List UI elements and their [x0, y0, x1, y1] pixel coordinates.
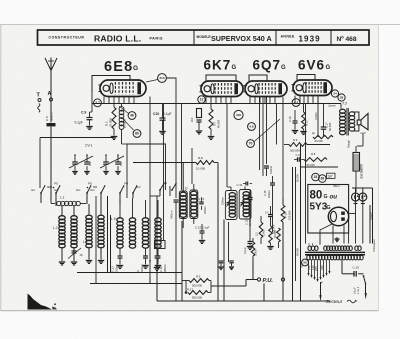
- wire 6V6 pin to 2uF resistor: [317, 96, 319, 138]
- svg-text:25.000: 25.000: [109, 118, 113, 127]
- scan top edge: [0, 24, 400, 26]
- vertical x225: [223, 220, 225, 302]
- svg-text:2μ: 2μ: [312, 131, 315, 135]
- trimmer 15 arrow: [68, 248, 81, 259]
- coil L4 winding: [98, 215, 104, 219]
- rectifier output wire: [349, 213, 356, 215]
- coil L1 winding: [57, 201, 62, 205]
- tag box 187: [327, 173, 336, 178]
- wire L1 right: [80, 203, 86, 205]
- title block frame: [38, 30, 370, 45]
- P.U. lead down: [263, 284, 265, 302]
- svg-text:0,1μF: 0,1μF: [163, 112, 172, 116]
- svg-text:100.000: 100.000: [288, 210, 292, 220]
- cathode cap: [197, 119, 202, 121]
- svg-text:250cm: 250cm: [267, 190, 271, 198]
- dial lamp box D: [155, 241, 166, 249]
- detector cap 0.1uF: [248, 241, 253, 243]
- ground C9: [86, 126, 93, 128]
- osc padder riser: [175, 202, 177, 301]
- AVC cap 1: [219, 260, 224, 262]
- circled 38: [319, 175, 327, 183]
- resistor R8b 50000: [304, 158, 327, 162]
- ground cathode: [196, 130, 203, 132]
- svg-text:56: 56: [303, 261, 307, 265]
- output transformer secondary winding: [349, 112, 355, 116]
- svg-text:A: A: [48, 91, 52, 97]
- svg-text:480cm: 480cm: [163, 264, 167, 272]
- cap C19: [342, 273, 354, 275]
- tuning cap pair 1: [74, 155, 76, 162]
- ground resistor 30000: [270, 243, 272, 246]
- long vertical x295: [295, 167, 297, 281]
- ground C10: [159, 131, 166, 133]
- wire 6E8 grid-cap down: [91, 92, 93, 96]
- svg-text:6E8: 6E8: [104, 59, 133, 75]
- svg-text:240cm: 240cm: [170, 210, 174, 219]
- wire C19 riser: [341, 260, 343, 273]
- rectifier designation box: [308, 185, 349, 234]
- coil L5 winding: [117, 218, 123, 222]
- rectifier cathode: [331, 211, 337, 221]
- cap C16: [245, 182, 247, 186]
- switch bank4 contact b: [171, 189, 173, 191]
- svg-text:318: 318: [236, 113, 241, 117]
- svg-text:2x8μF: 2x8μF: [370, 212, 374, 220]
- circled pin 318: [234, 110, 243, 119]
- 6Q7 pin wire 3: [266, 97, 268, 165]
- coil L2 winding: [59, 216, 65, 220]
- electrolytic lead 1: [355, 202, 357, 244]
- IF2 primary winding: [229, 193, 235, 197]
- P.U. terminal right: [281, 278, 284, 281]
- wire choke to osc box: [122, 143, 128, 145]
- antenna: [45, 58, 51, 71]
- 6Q7 pin wire 2: [262, 97, 264, 177]
- ground L4: [100, 248, 102, 260]
- leader lines circled 80: [122, 118, 134, 130]
- svg-text:500.000: 500.000: [290, 149, 300, 153]
- svg-text:500.000: 500.000: [192, 283, 203, 287]
- 6Q7 pin wire 1: [259, 97, 261, 171]
- ink blot bottom-left: [28, 294, 53, 310]
- IF1 primary bracket: [179, 191, 187, 219]
- svg-text:1 ou 2: 1 ou 2: [356, 286, 360, 294]
- svg-text:MODELE: MODELE: [197, 35, 212, 39]
- switch riser to bottom bus: [95, 196, 97, 284]
- svg-text:R.8: R.8: [198, 156, 203, 160]
- svg-text:D: D: [158, 244, 161, 248]
- circled pin 80: [133, 130, 141, 138]
- ground R7: [208, 136, 215, 138]
- svg-text:C.15: C.15: [244, 219, 248, 225]
- resistor R8: [196, 161, 214, 165]
- cap 510cm: [264, 165, 269, 167]
- svg-text:33: 33: [314, 175, 318, 179]
- svg-text:C.19: C.19: [353, 266, 360, 270]
- svg-text:50.000: 50.000: [328, 122, 332, 131]
- grid choke winding: [119, 107, 124, 112]
- coil bank bottom bus y283: [90, 283, 182, 285]
- scan right edge: [378, 25, 380, 312]
- circled pin 12: [198, 96, 205, 103]
- wire HT bus to T3: [340, 104, 342, 109]
- svg-text:187: 187: [327, 174, 333, 178]
- rectifier filament lead 1: [332, 226, 334, 244]
- IF1 secondary bracket: [190, 190, 198, 219]
- svg-text:G: G: [133, 65, 138, 72]
- cathode cap C18: [294, 110, 296, 121]
- earth mark: [38, 104, 40, 113]
- wire R9 to x330: [307, 144, 330, 146]
- riser x300 bus: [300, 145, 302, 302]
- circled pin 70: [247, 140, 255, 148]
- svg-text:213: 213: [159, 76, 164, 80]
- tube 6Q7 envelope: [245, 81, 287, 97]
- svg-text:SUPERVOX 540 A: SUPERVOX 540 A: [211, 34, 272, 43]
- svg-text:L.2: L.2: [53, 226, 58, 230]
- IF2 secondary bracket: [239, 190, 251, 220]
- 6Q7 pin wire 4: [276, 104, 278, 145]
- field coil leads: [355, 146, 357, 153]
- svg-text:R.8: R.8: [311, 152, 316, 156]
- ground detector: [249, 244, 251, 246]
- circled 56: [302, 259, 309, 266]
- bus vertical x163: [163, 104, 165, 241]
- IF2 secondary winding: [243, 192, 249, 196]
- circled pin 24: [331, 90, 338, 97]
- oscillator loop box: [127, 144, 166, 198]
- leader wire to circled 213: [146, 80, 158, 83]
- svg-text:6Q7: 6Q7: [253, 58, 282, 73]
- B+ top wire: [352, 187, 373, 189]
- svg-text:15: 15: [80, 253, 84, 257]
- resistor 30000 vertical: [269, 226, 273, 243]
- svg-text:1939: 1939: [299, 34, 321, 43]
- tube 6E8 envelope: [100, 80, 146, 97]
- svg-text:0,1μF: 0,1μF: [243, 247, 247, 254]
- wire x150 to bottom bus: [149, 278, 151, 284]
- wire C9 to grid loop: [91, 96, 93, 112]
- svg-text:500cm: 500cm: [50, 112, 54, 121]
- svg-text:38: 38: [321, 177, 325, 181]
- svg-text:R.9: R.9: [293, 138, 298, 142]
- svg-text:GC: GC: [31, 188, 35, 192]
- switch bank3 wires: [119, 193, 121, 204]
- bus vertical x182b: [181, 221, 183, 301]
- grid-cap loop 6V6: [297, 75, 315, 81]
- circled 33: [312, 173, 320, 181]
- wire bus y167: [301, 166, 339, 168]
- resistor 50000: [313, 135, 333, 138]
- bottom bus y301: [157, 300, 330, 302]
- IF2 secondary trimmer: [240, 202, 244, 204]
- svg-text:24: 24: [333, 92, 337, 96]
- bus vertical x150: [149, 97, 151, 284]
- long vertical x292: [292, 167, 294, 301]
- box edge to transformer: [348, 233, 350, 244]
- leader lines circled 46: [119, 106, 129, 114]
- HT bus wire y104: [92, 103, 341, 105]
- svg-text:Jaune: Jaune: [328, 104, 336, 108]
- osc padder cap: [174, 199, 179, 201]
- rectifier cathode to HT: [320, 224, 332, 244]
- svg-text:12: 12: [200, 98, 204, 102]
- transformer input risers: [308, 244, 310, 245]
- wire IF2 primary top: [230, 187, 232, 191]
- svg-text:2,2: 2,2: [255, 232, 259, 236]
- svg-text:30.000: 30.000: [273, 230, 277, 238]
- wire circled 213 down: [166, 78, 176, 198]
- svg-text:5Y3: 5Y3: [310, 202, 328, 213]
- IF1 leads: [182, 163, 184, 192]
- svg-text:L.1: L.1: [60, 196, 65, 200]
- mains tap leads with arrows: [308, 260, 310, 273]
- circled pin 46: [128, 112, 136, 120]
- electrolytic lead 2: [362, 202, 364, 244]
- cap C16b: [272, 176, 274, 183]
- R5 R17 left leads: [182, 280, 189, 282]
- svg-text:RADIO L.L.: RADIO L.L.: [94, 33, 141, 43]
- switch bank4 wire: [150, 195, 160, 197]
- detector cap 250cm: [249, 190, 251, 198]
- IF2 primary bracket: [225, 191, 237, 220]
- vertical wire x272 down: [272, 192, 274, 232]
- svg-text:4.8: 4.8: [249, 125, 254, 129]
- bus vertical x181: [181, 104, 183, 191]
- electrolytic capacitor 2 foot: [361, 203, 365, 205]
- svg-text:20.000: 20.000: [123, 119, 127, 128]
- trimmer 15 cap: [72, 250, 77, 252]
- svg-text:C.16: C.16: [237, 183, 243, 187]
- speaker cone: [361, 114, 368, 130]
- tuning cap pair 2: [105, 155, 107, 162]
- wire x250 down: [249, 216, 251, 242]
- svg-text:C.13: C.13: [111, 266, 115, 272]
- rectifier tube envelope: [328, 207, 348, 225]
- svg-text:240: 240: [320, 265, 324, 270]
- ground L3: [88, 248, 90, 260]
- coil L6 winding: [129, 218, 135, 222]
- svg-text:C.8: C.8: [45, 116, 49, 121]
- wire right pair down 1: [369, 205, 371, 244]
- bus vertical x192: [191, 148, 193, 184]
- svg-text:30.000: 30.000: [296, 248, 300, 256]
- svg-text:50.000: 50.000: [296, 174, 300, 182]
- bus vertical x170: [169, 186, 171, 196]
- wire R8 left: [133, 162, 196, 164]
- circled pin 213: [158, 74, 167, 83]
- left bus wire y137: [40, 137, 114, 139]
- svg-text:50.000: 50.000: [315, 139, 324, 143]
- IF2 primary trimmer: [227, 202, 231, 204]
- switch link wires: [47, 186, 52, 188]
- resistor R7: [209, 109, 213, 129]
- coil L3 winding: [86, 215, 92, 219]
- resistor R5 500000: [189, 279, 209, 283]
- svg-text:6V6: 6V6: [298, 58, 325, 73]
- IF1 primary winding: [180, 192, 186, 196]
- cap C11: [145, 248, 147, 256]
- switch bank4 contact a: [159, 189, 161, 191]
- svg-text:PARIS: PARIS: [150, 36, 164, 40]
- resistor 5000 vertical: [259, 222, 263, 238]
- leader circled 70: [254, 119, 280, 142]
- title divider 1: [193, 30, 195, 45]
- svg-text:CONSTRUCTEUR: CONSTRUCTEUR: [49, 35, 85, 39]
- P.U. terminal tick: [253, 279, 257, 281]
- output transformer primary winding: [340, 109, 346, 113]
- switch bank1 wires: [40, 193, 42, 203]
- svg-text:Rouge: Rouge: [347, 140, 351, 148]
- wire R8 right: [214, 162, 218, 164]
- svg-text:1.800: 1.800: [359, 163, 362, 170]
- svg-text:L.5: L.5: [111, 217, 116, 221]
- svg-text:Secteur: Secteur: [326, 299, 343, 305]
- pin stubs 6E8: [103, 97, 105, 104]
- riser x157 low: [156, 270, 158, 301]
- svg-text:ANNEE: ANNEE: [281, 35, 296, 39]
- grid-cap loop 6E8: [92, 76, 130, 93]
- svg-text:G: G: [327, 205, 331, 211]
- bus vertical x157: [156, 196, 158, 250]
- ground L2b: [73, 248, 75, 262]
- resistor R2: [112, 107, 116, 129]
- circled pin 28: [338, 94, 345, 101]
- svg-text:G: G: [326, 65, 331, 71]
- grid-cap loop 6Q7: [249, 75, 267, 81]
- pin stubs 6K7: [205, 97, 207, 104]
- svg-text:C.18: C.18: [288, 116, 292, 122]
- coil L2b winding: [71, 216, 77, 220]
- svg-text:500.000: 500.000: [192, 295, 203, 299]
- svg-text:3,5KΩ: 3,5KΩ: [314, 112, 318, 120]
- tube 6K7 envelope: [201, 81, 243, 97]
- vertical pair right of L4: [107, 196, 109, 273]
- ground R12: [300, 131, 307, 133]
- svg-text:Nº 468: Nº 468: [337, 36, 357, 43]
- svg-text:46: 46: [130, 114, 134, 118]
- R5 R17 right leads: [208, 292, 211, 294]
- bus vertical x228 down: [228, 222, 230, 262]
- cap C13: [119, 248, 121, 256]
- pin stubs 6V6: [294, 96, 296, 104]
- svg-text:225: 225: [314, 266, 318, 271]
- pin stubs 6Q7: [249, 97, 251, 104]
- speaker secondary leads: [352, 112, 359, 120]
- wire 6V6 to C17: [323, 104, 325, 113]
- svg-text:4.3: 4.3: [294, 101, 299, 105]
- cap C13b mid: [270, 206, 272, 215]
- switch bank2 wires: [86, 193, 88, 204]
- transformer T2 primary winding row segment 1: [308, 246, 311, 251]
- transformer T2 primary winding row segment 3: [355, 246, 358, 251]
- rectifier filament lead 2: [343, 225, 345, 243]
- svg-text:G: G: [281, 65, 286, 71]
- svg-text:C10: C10: [153, 112, 159, 116]
- resistor 3300: [251, 242, 255, 256]
- tube 6V6 envelope: [293, 80, 332, 96]
- svg-text:440: 440: [119, 161, 123, 166]
- electrolytic capacitor 1 foot: [354, 203, 358, 205]
- transformer T2 primary winding row segment 2: [324, 246, 327, 251]
- cap C17 body: [323, 112, 325, 127]
- svg-text:250cm: 250cm: [203, 206, 207, 214]
- svg-text:T.3: T.3: [342, 102, 347, 106]
- ground C15: [199, 240, 206, 242]
- wire voice coil down: [362, 134, 364, 147]
- transformer T2 secondary winding row: [307, 255, 310, 260]
- svg-text:C.6: C.6: [296, 153, 301, 157]
- AVC cap 2: [229, 260, 234, 262]
- svg-text:CV.1: CV.1: [85, 144, 92, 148]
- output transformer core: [346, 108, 348, 136]
- antenna lead: [50, 71, 52, 123]
- speaker voice coil: [357, 120, 361, 125]
- svg-text:40.000: 40.000: [217, 119, 221, 128]
- coil L8 winding: [155, 218, 161, 222]
- svg-text:G: G: [324, 194, 328, 200]
- tuning cap arrow CV2: [100, 156, 124, 168]
- svg-text:80: 80: [135, 132, 139, 136]
- wire x253 to P.U.: [252, 258, 254, 280]
- wire to P.U. terminal: [211, 285, 246, 287]
- svg-text:80: 80: [310, 190, 323, 202]
- svg-text:G: G: [232, 65, 237, 71]
- cap C12: [157, 248, 159, 256]
- svg-text:C.9: C.9: [81, 111, 86, 115]
- capacitor C9: [87, 117, 93, 119]
- svg-text:R.5: R.5: [196, 275, 201, 279]
- electrolytic capacitor 2: [359, 193, 367, 201]
- cap C15: [201, 224, 203, 231]
- IF1 secondary winding: [191, 191, 197, 195]
- svg-text:0,1μF: 0,1μF: [353, 287, 357, 294]
- capacitor C10: [160, 117, 166, 119]
- circled pin 43: [292, 99, 300, 107]
- title divider 3: [330, 30, 332, 45]
- svg-text:P.U.: P.U.: [263, 278, 274, 284]
- svg-text:28: 28: [340, 96, 344, 100]
- svg-text:510cm: 510cm: [269, 165, 273, 174]
- svg-text:Chimiques: Chimiques: [372, 239, 376, 252]
- wire IF2 secondary top: [244, 187, 246, 190]
- title divider 2: [275, 30, 277, 45]
- rectifier anode block 1: [341, 212, 345, 215]
- ground R2: [111, 136, 118, 138]
- electrolytic capacitor 1: [352, 193, 360, 201]
- wire R9 left joins 6Q7 wire: [284, 144, 289, 146]
- field coil Excitation: [353, 153, 360, 172]
- antenna down-wire: [50, 126, 52, 201]
- long vertical x283 lower: [282, 222, 284, 301]
- grid-cap loop 6K7: [206, 75, 236, 81]
- coil bank bottom bus y272: [77, 272, 182, 274]
- svg-text:10.000: 10.000: [196, 167, 206, 171]
- scan bottom edge: [1, 310, 378, 312]
- svg-text:C‧: C‧: [136, 269, 140, 272]
- mains lead down arrow: [320, 282, 322, 295]
- volume cap cluster: [156, 250, 158, 256]
- circled pin 37: [94, 99, 102, 107]
- svg-text:6K7: 6K7: [204, 58, 232, 73]
- cathode resistor R6 body: [197, 109, 202, 118]
- transformer center-tap ground: [336, 237, 338, 239]
- resistor 100000 vertical: [281, 205, 285, 222]
- AVC vertical x220: [217, 163, 219, 302]
- riser x305 bus: [305, 104, 307, 244]
- scan left edge: [0, 25, 2, 312]
